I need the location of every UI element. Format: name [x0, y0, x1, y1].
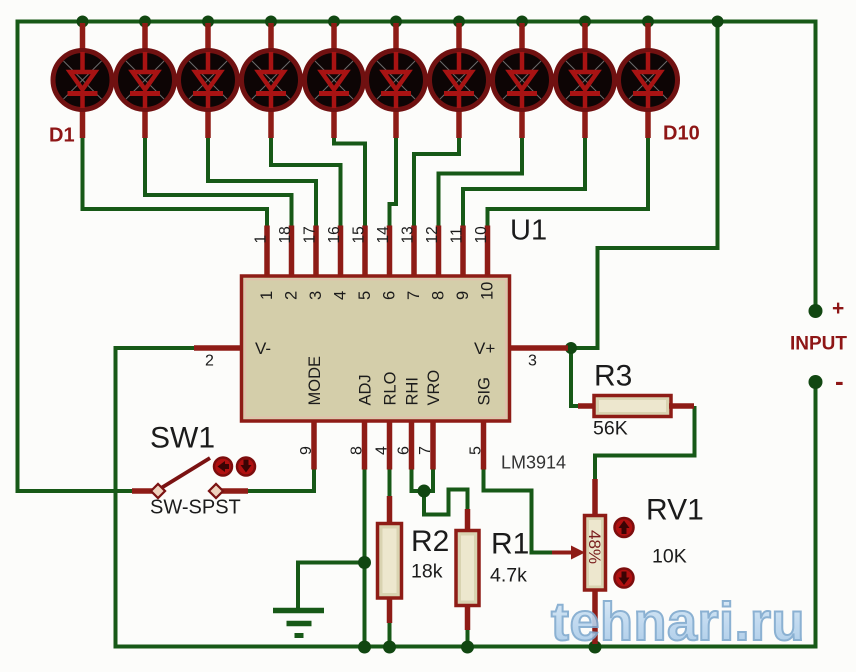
junction dot D7 anode	[453, 16, 465, 28]
svg-text:LM3914: LM3914	[501, 453, 566, 473]
potentiometer RV1 wiper arrow	[552, 546, 585, 560]
svg-text:-: -	[835, 366, 844, 396]
svg-text:17: 17	[302, 226, 319, 243]
LED D5	[305, 23, 364, 138]
switch SW1 stub right	[220, 488, 248, 494]
wire D1 cathode to IC pin 1	[83, 136, 268, 226]
switch SW1 stub left	[132, 488, 154, 494]
junction dot D4 anode	[265, 16, 277, 28]
junction dot D6 anode	[390, 16, 402, 28]
svg-text:48%: 48%	[585, 530, 604, 564]
svg-text:SW-SPST: SW-SPST	[150, 497, 241, 519]
svg-text:8: 8	[349, 446, 366, 455]
wire R3 right to RV1 top	[595, 406, 695, 481]
LED D10	[619, 23, 678, 138]
svg-text:6: 6	[396, 446, 413, 455]
svg-text:SW1: SW1	[150, 422, 215, 455]
svg-text:6: 6	[381, 291, 399, 300]
svg-text:10: 10	[479, 282, 497, 300]
svg-text:SIG: SIG	[476, 377, 494, 405]
potentiometer RV1 stub top	[592, 479, 598, 517]
wire D3 cathode to IC pin 3	[208, 136, 316, 226]
svg-text:7: 7	[417, 446, 434, 455]
svg-text:R2: R2	[411, 525, 449, 558]
svg-text:RHI: RHI	[404, 377, 422, 405]
LED D1	[53, 23, 112, 138]
terminal - INPUT	[809, 375, 823, 389]
svg-text:10K: 10K	[652, 546, 687, 568]
switch SW1 terminal right	[209, 484, 223, 498]
resistor R3 stub right	[669, 403, 694, 409]
potentiometer RV1 body	[585, 516, 606, 591]
svg-text:tehnari.ru: tehnari.ru	[551, 592, 805, 652]
LED D2	[116, 23, 175, 138]
wire D5 cathode to IC pin 5	[334, 136, 365, 226]
svg-text:U1: U1	[510, 215, 547, 247]
wire node to R1 top	[424, 490, 468, 515]
wire SIG pin 5 to RV1 wiper	[484, 468, 553, 553]
svg-text:13: 13	[400, 226, 417, 243]
svg-text:V+: V+	[474, 339, 495, 358]
svg-text:+: +	[832, 297, 844, 320]
svg-text:RV1: RV1	[646, 494, 704, 527]
IC U1 pin stubs top	[267, 226, 488, 278]
junction dot V+ / R3 node	[565, 342, 577, 354]
switch SW1 terminal left	[151, 484, 165, 498]
svg-text:R3: R3	[594, 360, 632, 393]
svg-text:5: 5	[356, 291, 374, 300]
svg-text:R1: R1	[491, 528, 529, 561]
wire V+ net from pin 3 up to LED rail	[571, 22, 718, 349]
svg-text:2: 2	[283, 291, 301, 300]
junction dot D8 anode	[516, 16, 528, 28]
svg-text:15: 15	[351, 226, 368, 243]
wire D8 cathode to IC pin 8	[439, 136, 523, 226]
svg-text:56K: 56K	[593, 418, 628, 440]
svg-text:4: 4	[332, 291, 350, 300]
resistor R2 stub bottom	[387, 597, 393, 623]
switch SW1 toggle button right	[237, 458, 255, 476]
junction dot D5 anode	[328, 16, 340, 28]
svg-text:7: 7	[405, 291, 423, 300]
junction dot R1 on rail	[461, 641, 474, 654]
terminal + INPUT	[809, 304, 823, 318]
wire D10 cathode to IC pin 10	[488, 136, 649, 226]
svg-text:2: 2	[205, 353, 214, 370]
svg-text:V-: V-	[255, 339, 271, 358]
junction dot D2 anode	[139, 16, 151, 28]
wire R3 left to V+ node	[571, 348, 580, 406]
wire D2 cathode to IC pin 2	[145, 136, 292, 226]
wire R1 bottom to rail	[466, 629, 470, 647]
resistor R1 body	[456, 531, 479, 606]
resistor R2 body	[378, 524, 402, 599]
junction dot R2 on rail	[383, 641, 396, 654]
svg-text:4.7k: 4.7k	[490, 565, 527, 587]
junction dot RHI-VRO node	[418, 485, 431, 498]
svg-text:9: 9	[454, 291, 472, 300]
LED D4	[242, 23, 301, 138]
junction dot D3 anode	[202, 16, 214, 28]
svg-text:3: 3	[528, 353, 537, 370]
IC U1 bottom pin function labels	[306, 356, 494, 406]
LED D3	[179, 23, 238, 138]
ground symbol	[273, 611, 324, 636]
svg-text:14: 14	[375, 226, 392, 244]
svg-text:4: 4	[374, 446, 391, 455]
svg-text:18: 18	[277, 226, 294, 243]
wire RLO pin 4 to R2	[388, 468, 392, 498]
LED D6	[367, 23, 426, 138]
wire RHI pin 6 to node	[412, 468, 425, 491]
wire D9 cathode to IC pin 9	[463, 136, 585, 226]
IC U1 pin stub V+ (pin 3)	[508, 345, 568, 351]
svg-text:ADJ: ADJ	[357, 374, 375, 405]
junction dot V+ rail on anode rail	[712, 16, 724, 28]
potentiometer RV1 increase button	[615, 518, 634, 537]
svg-text:3: 3	[307, 291, 325, 300]
LED D7	[430, 23, 489, 138]
wire R2 bottom to rail	[388, 622, 392, 647]
svg-text:5: 5	[468, 446, 485, 455]
IC U1 pad numbers 1-10 inside top edge	[258, 282, 497, 300]
svg-text:9: 9	[298, 446, 315, 455]
wire V- left rail / top LED anode rail / right rail to + terminal	[18, 22, 816, 492]
svg-text:12: 12	[424, 226, 441, 243]
junction dot RV1 on rail	[589, 641, 602, 654]
wire ground branch	[298, 563, 365, 609]
IC U1 pin stub V- (pin 2)	[194, 345, 243, 351]
junction dot ADJ on rail	[358, 641, 371, 654]
resistor R2 stub top	[387, 496, 393, 525]
wire D4 cathode to IC pin 4	[271, 136, 341, 226]
LED D9	[556, 23, 615, 138]
resistor R1 stub top	[465, 509, 471, 532]
svg-text:1: 1	[258, 291, 276, 300]
svg-text:RLO: RLO	[382, 371, 400, 405]
svg-text:MODE: MODE	[306, 356, 324, 406]
svg-text:10: 10	[473, 226, 490, 244]
svg-text:D10: D10	[663, 123, 700, 145]
wire D6 cathode to IC pin 6	[390, 136, 397, 226]
switch SW1 toggle button left	[214, 458, 232, 476]
LED D8	[493, 23, 552, 138]
svg-text:VRO: VRO	[425, 370, 443, 406]
resistor R3 body	[594, 396, 671, 417]
junction dot ground branch	[358, 556, 371, 569]
wire D7 cathode to IC pin 7	[414, 136, 459, 226]
junction dot D10 anode	[642, 16, 654, 28]
wire ADJ pin 8 down to ground rail	[363, 468, 367, 647]
svg-text:1: 1	[253, 235, 270, 244]
resistor R3 stub left	[578, 403, 596, 409]
resistor R1 stub bottom	[465, 604, 471, 630]
IC U1 pin stubs bottom	[314, 420, 484, 470]
wire VRO pin 7 to node	[424, 468, 433, 491]
IC U1 bottom pin numbers	[298, 446, 485, 455]
svg-text:D1: D1	[49, 125, 75, 147]
svg-text:18k: 18k	[411, 561, 443, 583]
wire GND bottom rail from - terminal to V- pin 2	[116, 348, 816, 647]
svg-text:11: 11	[449, 227, 466, 243]
switch SW1 lever	[162, 458, 210, 488]
potentiometer RV1 decrease button	[615, 569, 634, 588]
svg-text:INPUT: INPUT	[790, 334, 847, 355]
wire MODE pin 9 to switch	[247, 469, 314, 491]
svg-text:16: 16	[326, 226, 343, 243]
junction dot D9 anode	[579, 16, 591, 28]
IC U1 body LM3914	[242, 276, 510, 421]
svg-text:8: 8	[430, 291, 448, 300]
junction dot D1 anode	[77, 16, 89, 28]
IC U1 net labels on top pins	[253, 226, 491, 244]
potentiometer RV1 stub bottom	[592, 588, 598, 644]
